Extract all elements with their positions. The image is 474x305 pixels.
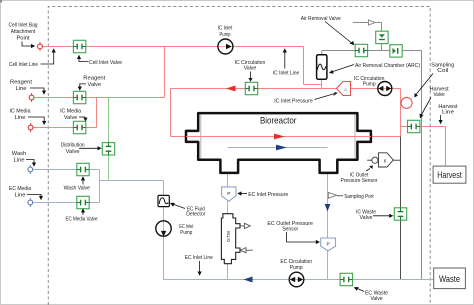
valve: gas check valve (vertical, down) xyxy=(376,31,388,43)
wire: feed riser x=164.2 xyxy=(164,47,166,98)
pump: IC Inlet Pump xyxy=(218,39,233,54)
wire: EC media line (y=202.5) xyxy=(33,202,100,204)
svg-text:Bioreactor: Bioreactor xyxy=(260,116,297,126)
node: wash port (blue) xyxy=(29,165,31,174)
wire: IC media line (red, y=127.6) xyxy=(33,127,97,129)
svg-text:Sensor: Sensor xyxy=(282,227,298,233)
svg-text:Air Removal Chamber (ARC): Air Removal Chamber (ARC) xyxy=(355,63,420,69)
svg-text:Reagent: Reagent xyxy=(83,76,106,82)
wire: EC internal line y=147.1 xyxy=(228,147,328,149)
wire: EC outlet drop x=327.8 xyxy=(327,148,329,239)
flow arrow (blue, in bioreactor) xyxy=(276,145,287,151)
svg-text:P: P xyxy=(227,191,230,197)
wire: gas line from ARC top y=50.9 xyxy=(322,50,422,52)
svg-text:Valve: Valve xyxy=(434,92,445,98)
GTM gas in arrow xyxy=(240,248,246,253)
wire: IC waste line x=400.4 (dark) xyxy=(400,137,402,280)
svg-text:6: 6 xyxy=(384,158,387,163)
svg-text:Valve: Valve xyxy=(371,296,383,302)
pump: EC Circulation Pump xyxy=(289,272,304,287)
svg-text:Pump: Pump xyxy=(363,82,376,88)
svg-text:Cell Inlet Bag: Cell Inlet Bag xyxy=(9,22,38,28)
node: cell inlet attachment (red circle) xyxy=(39,42,41,51)
svg-text:EC Inlet Pressure: EC Inlet Pressure xyxy=(248,192,288,198)
wire: pump to sampling coil riser x=400.9 xyxy=(392,88,401,90)
svg-text:Waste: Waste xyxy=(439,274,460,284)
svg-text:Coil: Coil xyxy=(437,68,448,74)
wire: EC bottom line y=279.4 xyxy=(164,279,434,281)
box: Waste xyxy=(434,268,466,289)
svg-text:Line: Line xyxy=(15,115,26,121)
svg-text:Reagent: Reagent xyxy=(10,80,33,86)
svg-text:P: P xyxy=(326,242,329,248)
EC fluid detector xyxy=(158,195,169,206)
flow arrow (blue, EC outlet, pointing down) xyxy=(325,204,331,211)
air removal chamber ARC xyxy=(321,51,323,55)
sensor: IC outlet pressure (circle + pentagon) xyxy=(367,159,372,161)
svg-text:Air Removal Valve: Air Removal Valve xyxy=(301,16,341,22)
valve: Cell Inlet Valve xyxy=(73,40,85,52)
svg-text:IC Inlet Pressure: IC Inlet Pressure xyxy=(274,99,312,105)
wire: gas down line x=421.6 xyxy=(421,51,423,280)
wire: IC outlet from bioreactor y=136.6 xyxy=(371,136,401,138)
wire: wash line (y=169.1) xyxy=(33,169,100,171)
svg-text:Cell Inlet Line: Cell Inlet Line xyxy=(9,62,38,68)
sensor: IC inlet pressure pentagon xyxy=(337,82,351,96)
flow arrow (blue, bottom line, pointing left) xyxy=(244,277,253,283)
pump: EC Inlet Pump xyxy=(156,221,171,236)
svg-text:Valve: Valve xyxy=(360,215,373,221)
sensor: EC outlet pressure pentagon xyxy=(321,238,336,251)
pump: IC Circulation Pump xyxy=(378,82,392,96)
svg-text:Pump: Pump xyxy=(290,265,303,271)
sampling port (open triangle) xyxy=(328,192,337,198)
wire: EC supply y=180.2 xyxy=(100,180,164,182)
wire: vent line y=22.2 xyxy=(353,22,382,24)
wire: blue EC line through bioreactor xyxy=(228,147,328,149)
svg-text:Valve: Valve xyxy=(64,115,78,121)
svg-text:IC Inlet Line: IC Inlet Line xyxy=(273,71,300,77)
valve: gas check valve (right) xyxy=(390,45,402,57)
valve: Distribution Valve xyxy=(102,143,114,155)
system boundary (dashed) xyxy=(48,7,430,305)
node: IC media port xyxy=(30,123,32,132)
svg-text:Valve: Valve xyxy=(66,149,80,155)
gas transfer module GTM xyxy=(221,214,240,264)
vent open arrow xyxy=(369,20,376,25)
valve: IC Waste Valve xyxy=(394,208,406,220)
svg-text:Valve: Valve xyxy=(244,66,257,72)
svg-text:Line: Line xyxy=(16,86,27,92)
svg-text:Wash Valve: Wash Valve xyxy=(64,186,90,192)
svg-text:EC Inlet Line: EC Inlet Line xyxy=(185,255,213,261)
bioreactor xyxy=(186,113,371,173)
wire: feed to ARC bottom y=84.8 xyxy=(304,84,322,86)
svg-text:Attachment: Attachment xyxy=(11,29,36,35)
valve: IC Media Valve xyxy=(73,121,85,133)
svg-text:Valve: Valve xyxy=(88,82,102,88)
valve: Reagent Valve xyxy=(73,91,85,103)
svg-text:Pump: Pump xyxy=(220,32,231,38)
wire: reagent line (red, y=97.2) xyxy=(34,97,165,99)
wire: EC inlet riser to bioreactor x=228 xyxy=(227,148,229,187)
wire: ARC bottom stub xyxy=(321,79,323,88)
svg-text:IC Media: IC Media xyxy=(60,109,81,115)
svg-text:EC Media: EC Media xyxy=(9,186,31,192)
svg-text:EC Media Valve: EC Media Valve xyxy=(66,216,98,222)
svg-text:GTM: GTM xyxy=(226,231,232,242)
svg-text:Line: Line xyxy=(442,110,454,116)
svg-text:Cell Inlet Valve: Cell Inlet Valve xyxy=(89,60,122,66)
valve: Wash Valve xyxy=(77,163,89,175)
svg-text:Point: Point xyxy=(17,35,31,41)
svg-text:IC Inlet: IC Inlet xyxy=(218,26,233,32)
wire: wash/EC merge x=99.1 xyxy=(99,170,101,203)
valve: IC Circulation Valve xyxy=(245,82,257,94)
wire: harvest branch y=126.2 xyxy=(401,126,446,128)
wire: distribution line (green, x=108.7) xyxy=(108,98,110,181)
svg-text:Detector: Detector xyxy=(186,212,205,218)
svg-text:IC Media: IC Media xyxy=(10,108,31,114)
sensor: EC inlet pressure pentagon xyxy=(222,187,236,201)
valve: Harvest Valve xyxy=(408,120,420,132)
svg-text:Harvest: Harvest xyxy=(437,170,462,180)
svg-text:Line: Line xyxy=(14,158,25,164)
valve: EC Waste Valve xyxy=(340,273,352,285)
svg-text:Wash: Wash xyxy=(12,151,26,157)
flow arrow (red, in bioreactor) xyxy=(274,134,285,140)
GTM gas out arrow xyxy=(240,225,244,227)
flow arrow (red, circulation, pointing left) xyxy=(226,86,236,92)
wire: IC media riser x=96.6 xyxy=(96,98,98,128)
wire: EC supply drop x=163.5 xyxy=(163,181,165,280)
valve: Air Removal Valve xyxy=(355,44,367,56)
svg-text:Pressure Sensor: Pressure Sensor xyxy=(341,178,378,184)
wire: IC circulation drop x=170.9 xyxy=(170,89,172,137)
wire: IC circulation line y=88.9 xyxy=(171,88,378,90)
node: EC media port (blue) xyxy=(29,198,31,207)
wire: feed drop to ARC loop x=303 xyxy=(303,47,305,85)
valve: EC Media Valve xyxy=(77,196,89,208)
box: Harvest xyxy=(433,166,466,183)
wire: cell inlet line (red, y=46) xyxy=(43,46,304,48)
svg-text:Sampling Port: Sampling Port xyxy=(344,194,374,200)
sampling coil (red circle) xyxy=(401,97,412,108)
wire: red IC line through bioreactor xyxy=(186,136,371,138)
wire: IC inlet to bioreactor y=136.6 xyxy=(171,136,187,138)
corner artifact xyxy=(0,0,2,3)
svg-text:Line: Line xyxy=(15,192,26,198)
node: reagent line port xyxy=(31,93,33,102)
svg-text:Pump: Pump xyxy=(180,230,192,236)
svg-text:Distribution: Distribution xyxy=(61,143,85,149)
